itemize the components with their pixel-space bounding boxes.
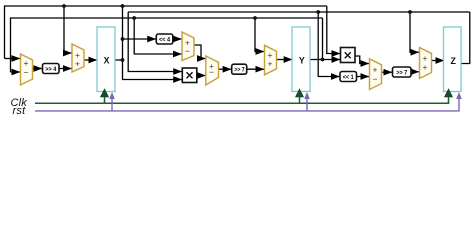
adder A2 [72,44,84,72]
wire A2 in1 from L1 tap [64,6,72,53]
wire v7 Y out up to L3 [322,18,324,60]
svg-text:+: + [268,58,273,68]
wire Clk branch Y [299,96,301,103]
node L1 x122.5 [121,4,125,8]
wire v6 Z net to <<1 [318,12,339,77]
wire <<1 out to A6 in2 [357,76,370,78]
svg-text:−: − [185,46,190,56]
svg-text:Z: Z [451,56,457,66]
adder A6 [370,59,382,90]
node v1 shift tap [121,37,125,41]
multiplier XOR2 [341,48,356,63]
svg-text:X: X [104,55,110,65]
wire tap to <<4 [123,38,156,40]
svg-text:rst: rst [13,105,27,117]
rst arrow Y [304,92,310,99]
shifter B2 <<4 [156,34,173,44]
wire A5 out to Y [277,59,293,61]
wire A6 out to >>7b [382,71,393,73]
shifter B5 >>7b [393,67,412,77]
wire rst branch Y [306,97,308,111]
svg-text:<< 1: << 1 [343,74,354,81]
wire XOR2 out elbow to A6 in1 [355,56,369,64]
svg-text:+: + [373,65,378,75]
register X [97,27,115,92]
shifter B1 >>4 [43,64,60,74]
wire >>7 out to A5 in2 [247,68,264,70]
wire Z out stub up to L2 [461,12,470,64]
clk arrow X [101,89,109,97]
wire A1 out to >>4 [33,68,43,70]
svg-text:−: − [24,68,29,78]
adder A1 [21,54,33,85]
wire A1 in2 from L3 [11,71,21,73]
svg-text:+: + [423,62,428,72]
wire v2 Z net to XOR1 in1 [128,12,182,72]
wire L3 net Y feedback [11,18,323,72]
svg-text:−: − [373,74,378,84]
wire Clk line [35,96,449,103]
adder A7 [420,48,432,79]
adder A3 [182,32,194,61]
wire L2 net Z feedback [128,11,470,13]
clk arrow Y [296,89,304,97]
svg-text:−: − [209,67,214,77]
node L2 x410 [408,10,412,14]
rst arrow Z [456,92,462,99]
node L2 x319.5 [316,10,320,14]
wire A5 in1 from L3 tap [255,18,264,52]
rst arrow X [109,92,115,99]
wire L1 net X feedback top [5,6,327,59]
wire >>7b out to A7 in2 [411,71,419,73]
node L3 x134 [132,16,136,20]
wire A1 in1 from L1 [5,58,21,60]
clk arrow Z [445,89,453,97]
wire v3 Y net to A3 in2 [134,18,181,54]
adder A4 [206,56,219,85]
wire >>4 out to A2 in2 [59,68,72,70]
wire rst branch X [111,97,113,111]
svg-text:>> 7: >> 7 [396,70,407,77]
node L3 x255 [253,16,257,20]
wire v1 X net vertical [123,6,182,80]
svg-text:Y: Y [299,55,305,65]
svg-text:+: + [24,58,29,68]
svg-text:+: + [75,59,80,69]
multiplier XOR1 [182,68,197,83]
wire A7 out to Z [432,60,445,62]
wire rst line [35,97,459,111]
wire A7 in1 from L2 tap [410,12,419,52]
multiplier XOR2 cross [345,52,351,58]
svg-text:>> 4: >> 4 [45,66,56,73]
adder A5 [265,45,277,75]
wire <<4 out to A3 in1 [173,38,182,40]
wire X out stub [115,59,123,61]
node Y out [321,58,325,62]
shifter B3 >>7 [232,64,247,74]
node X out [121,58,125,62]
svg-text:>> 7: >> 7 [234,67,244,74]
multiplier XOR1 cross [187,72,193,78]
wire Y out to XOR2 in2 [311,59,341,61]
wire Clk branch X [104,96,106,103]
svg-text:<< 4: << 4 [159,37,170,44]
shifter B4 <<1 [340,72,357,82]
register Z [444,27,462,92]
wire A4 out to >>7 [219,68,232,70]
wire A3 out elbow to A4 in1 [194,45,206,59]
wire v5 X net to XOR2 in1 [327,6,340,54]
register Y [292,27,310,92]
wire A2 out to X [84,59,97,61]
node L1 x64 [62,4,66,8]
wire XOR1 out to A4 in2 [197,75,206,77]
